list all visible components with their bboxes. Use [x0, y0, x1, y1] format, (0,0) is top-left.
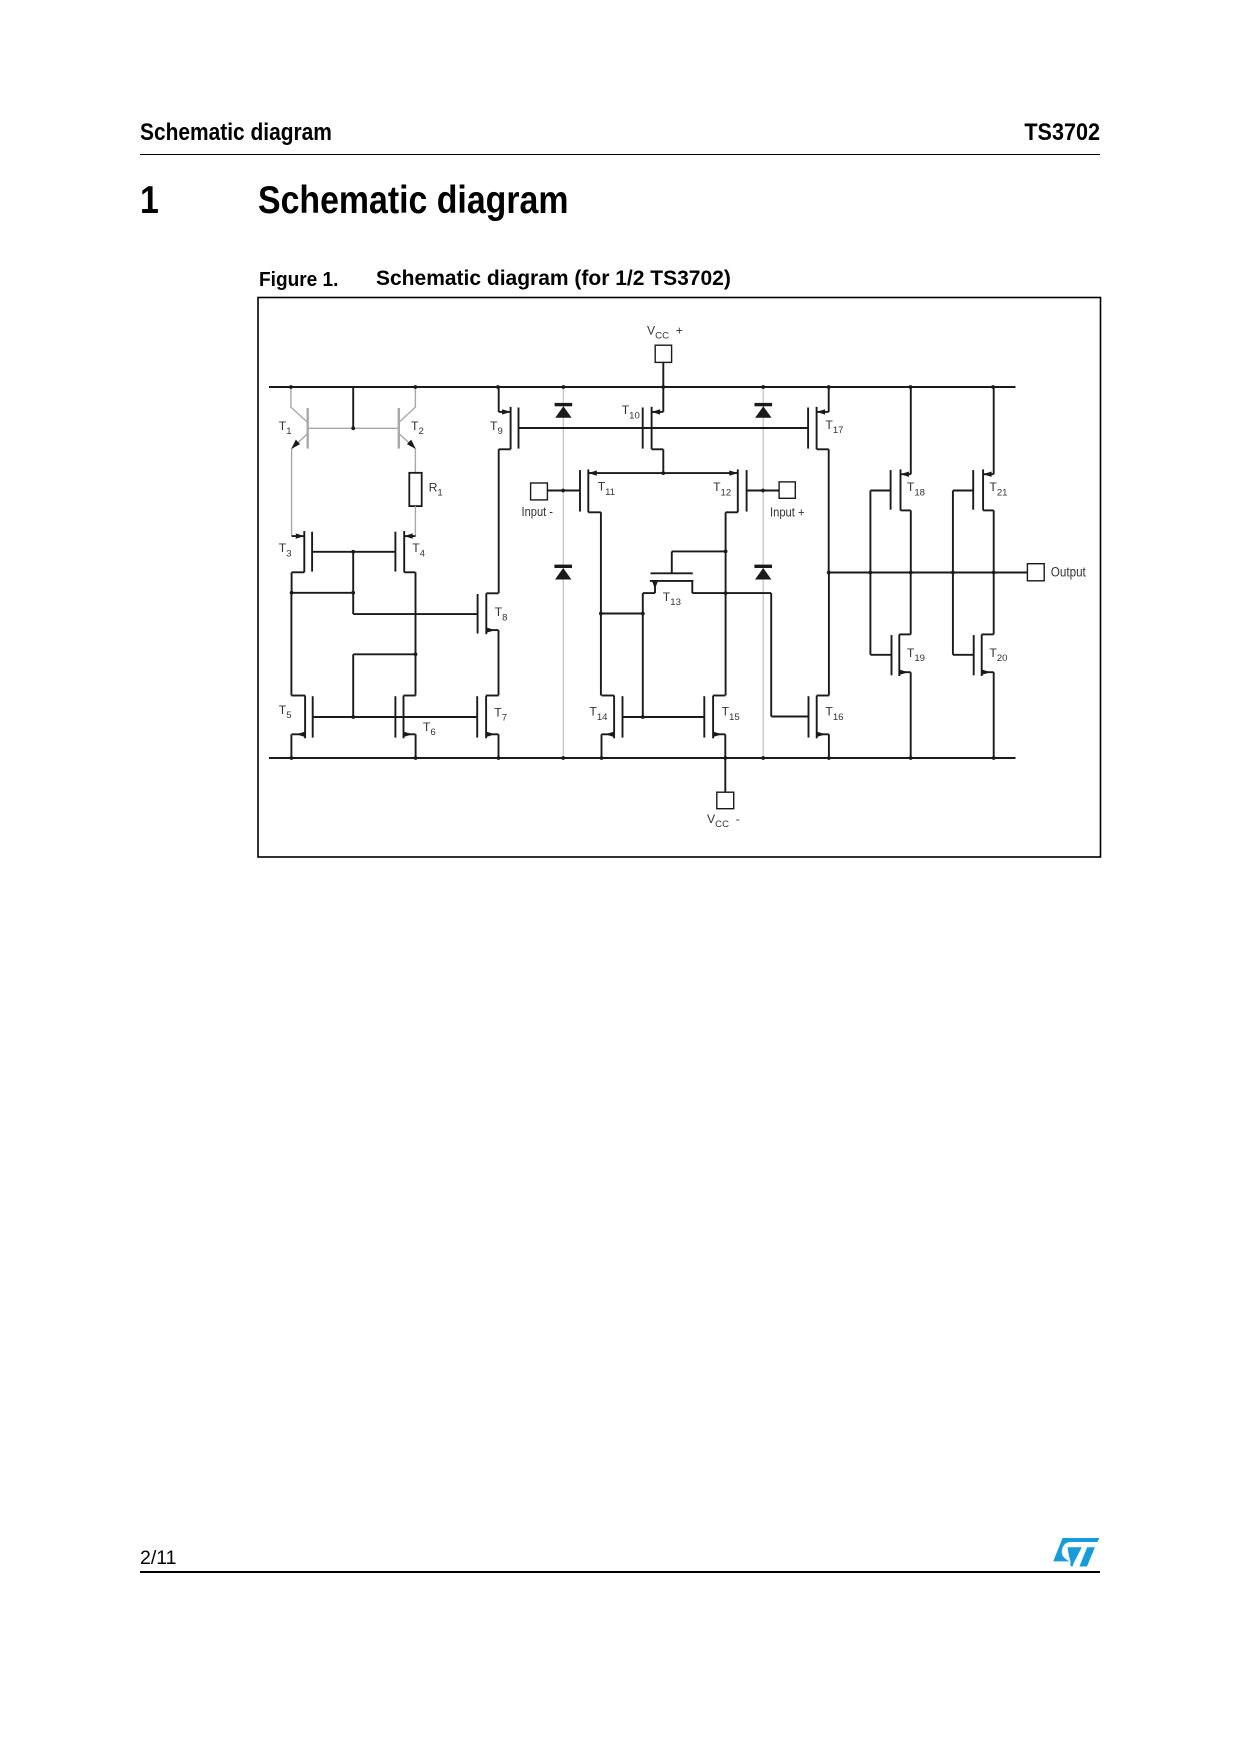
junction dot	[991, 385, 995, 389]
junction dot	[289, 385, 293, 389]
svg-text:Input -: Input -	[522, 504, 554, 519]
svg-text:T1: T1	[279, 419, 292, 437]
wire T10 source to rail / VCC+ node	[662, 387, 664, 412]
junction dot	[724, 591, 728, 595]
wire Input- to T11 gate	[547, 490, 580, 492]
svg-text:T4: T4	[412, 541, 425, 559]
wire T5 source to rail	[290, 734, 292, 758]
wire T8 drain up to T9 drain	[498, 449, 500, 593]
wire T21/T20 gate vertical	[953, 490, 973, 492]
wire T17 source to rail	[828, 387, 830, 412]
junction dot	[641, 612, 645, 616]
wire T13 gate lead	[671, 551, 673, 573]
wire T2 emitter to R1	[414, 449, 416, 473]
junction dot	[992, 756, 996, 760]
wire T3-T4 gate bus	[312, 551, 395, 553]
wire VCC+ positive supply rail (top)	[269, 386, 1016, 388]
wire node between T11 drain and T13 source	[601, 613, 643, 615]
wire T18/T19 gate vertical	[869, 491, 871, 655]
junction dot	[561, 756, 565, 760]
wire T18 drain to output node	[910, 510, 912, 572]
junction dot	[562, 385, 566, 389]
resistor R1	[409, 473, 421, 506]
transistor T12	[737, 469, 739, 512]
transistor T17	[816, 407, 818, 450]
wire T7 drain up to T8 source	[498, 630, 500, 695]
wire T18 source to rail	[910, 387, 912, 474]
svg-text:T15: T15	[722, 705, 740, 723]
wire T21 drain to output node	[993, 510, 995, 572]
transistor T10	[651, 407, 653, 450]
wire T3 drain to gate-bus tap	[292, 592, 354, 594]
terminal VCC-	[717, 792, 734, 809]
wire branch to T5 gate bus	[353, 653, 415, 655]
svg-text:T7: T7	[494, 705, 507, 723]
wire T12 drain node to T16 gate	[726, 592, 772, 594]
diode D3 (Input+ to VCC+)	[755, 403, 773, 406]
junction dot	[761, 489, 765, 493]
transistor T15	[712, 696, 714, 739]
svg-text:T6: T6	[423, 720, 436, 738]
svg-text:T19: T19	[907, 646, 925, 664]
wire T20 drain to output node	[993, 573, 995, 635]
wire down to T14-T15 gate bus	[642, 614, 644, 718]
transistor T20	[981, 634, 983, 676]
svg-text:VCC -: VCC -	[707, 812, 740, 830]
svg-text:T5: T5	[279, 703, 292, 721]
wire T19 gate lead	[870, 654, 891, 656]
transistor T19	[898, 634, 900, 676]
wire T4 drain down	[415, 572, 417, 695]
transistor T3	[303, 531, 305, 572]
svg-text:T16: T16	[825, 705, 843, 723]
svg-text:T10: T10	[622, 403, 640, 421]
junction dot	[414, 652, 418, 656]
wire T1-T2 base bus	[308, 427, 399, 429]
svg-text:T11: T11	[598, 480, 615, 498]
junction dot	[600, 756, 604, 760]
junction dot	[827, 756, 831, 760]
wire T17 drain down to output node	[828, 449, 830, 572]
wire VCC- negative supply rail (bottom)	[269, 757, 1016, 759]
svg-text:T9: T9	[490, 419, 503, 437]
transistor T18	[900, 469, 902, 510]
transistor T7	[485, 696, 487, 739]
terminal VCC+	[655, 345, 671, 362]
diode D1 (Input- to VCC+)	[555, 403, 573, 406]
wire T21 source to rail	[993, 387, 995, 474]
junction dot	[724, 550, 728, 554]
transistor T8	[485, 593, 487, 634]
wire T14-T15 gate bus	[623, 716, 705, 718]
transistor T16	[816, 696, 818, 739]
wire rail to base bus	[352, 387, 354, 428]
junction dot	[290, 591, 294, 595]
wire common source line T11-T12	[588, 472, 738, 474]
junction dot	[909, 385, 913, 389]
wire T3 drain down	[291, 572, 293, 593]
junction dot	[723, 756, 727, 760]
junction dot	[497, 756, 501, 760]
wire T7 source to rail	[498, 734, 500, 758]
ST Microelectronics logo	[1053, 1538, 1099, 1567]
wire VCC+ terminal to rail	[662, 362, 664, 387]
svg-text:Output: Output	[1051, 565, 1086, 580]
transistor T5	[304, 696, 306, 739]
svg-text:R1: R1	[429, 481, 443, 499]
junction dot	[351, 426, 355, 430]
svg-text:T18: T18	[907, 480, 925, 498]
svg-text:T12: T12	[713, 480, 731, 498]
junction dot	[351, 715, 355, 719]
wire T10 drain down to diff pair sources	[662, 449, 664, 473]
junction dot	[761, 756, 765, 760]
wire gate bus T9-T10-T17	[519, 427, 809, 429]
wire T15 source to rail	[724, 734, 726, 758]
wire gate-bus tap down to T8 gate lead	[352, 552, 354, 614]
junction dot	[290, 756, 294, 760]
junction dot	[909, 756, 913, 760]
figure border box	[258, 298, 1101, 858]
wire T13 source (left)	[654, 581, 656, 593]
transistor T9	[510, 407, 512, 450]
transistor T4	[403, 531, 405, 572]
wire output node line	[829, 572, 1028, 574]
wire T1 emitter down to T3 source	[291, 449, 293, 536]
junction dot	[661, 471, 665, 475]
svg-text:T2: T2	[411, 419, 424, 437]
svg-text:T14: T14	[589, 705, 608, 723]
transistor T21	[982, 469, 984, 510]
wire T19 source to rail	[910, 672, 912, 758]
wire T13 drain (right)	[691, 581, 693, 593]
wire T6 source to rail	[415, 734, 417, 758]
diode D4 (VCC- to Input+)	[754, 565, 772, 568]
wire T12 gate to Input+	[747, 490, 780, 492]
transistor Q T1 (grey bipolar)	[307, 408, 309, 449]
junction dot	[496, 385, 500, 389]
junction dot	[761, 385, 765, 389]
wire node to T8 gate	[353, 613, 477, 615]
junction dot	[951, 571, 955, 575]
junction dot	[414, 385, 418, 389]
svg-text:T8: T8	[495, 605, 508, 623]
svg-text:T17: T17	[825, 418, 843, 436]
junction dot	[414, 756, 418, 760]
terminal Input-	[531, 483, 548, 500]
transistor T14	[613, 696, 615, 739]
wire bottom rail to VCC- terminal	[724, 758, 726, 792]
wire T5 drain up	[290, 593, 292, 696]
junction dot	[909, 571, 913, 575]
svg-text:T20: T20	[989, 646, 1007, 664]
wire T12 drain down to T15	[725, 512, 727, 695]
junction dot	[992, 571, 996, 575]
junction dot	[561, 489, 565, 493]
svg-text:T3: T3	[279, 541, 292, 559]
thin grey line right (ESD net at x=763)	[762, 387, 764, 758]
junction dot	[351, 591, 355, 595]
svg-text:Input +: Input +	[770, 505, 805, 520]
terminal Output	[1027, 564, 1044, 581]
svg-text:T21: T21	[989, 480, 1007, 498]
transistor T6	[403, 696, 405, 739]
terminal Input+	[779, 482, 795, 498]
junction dot	[641, 715, 645, 719]
junction dot	[827, 385, 831, 389]
wire T20 gate lead	[953, 654, 974, 656]
wire T18 gate tap	[870, 490, 890, 492]
wire T9 source to rail	[498, 387, 500, 412]
junction dot	[827, 571, 831, 575]
junction dot	[351, 550, 355, 554]
svg-text:VCC +: VCC +	[647, 324, 683, 342]
wire T16 drain up to output node	[828, 573, 830, 696]
wire T5-T6-T7 gate bus	[313, 716, 478, 718]
svg-text:T13: T13	[663, 590, 681, 608]
wire R1 to T4 source	[414, 506, 416, 536]
transistor T13 (horizontal)	[651, 572, 693, 574]
thin grey line left (ESD net at x=563)	[562, 387, 564, 758]
wire T16 source to rail	[828, 734, 830, 758]
junction dot	[661, 385, 665, 389]
wire T11 drain down to T14	[600, 512, 602, 695]
junction dot	[599, 612, 603, 616]
wire T19 drain to output node	[910, 573, 912, 635]
transistor T11	[587, 469, 589, 512]
diode D2 (VCC- to Input-)	[554, 565, 572, 568]
junction dot	[868, 571, 872, 575]
wire T20 source to rail	[993, 672, 995, 758]
transistor Q T2 (grey bipolar)	[398, 408, 400, 449]
